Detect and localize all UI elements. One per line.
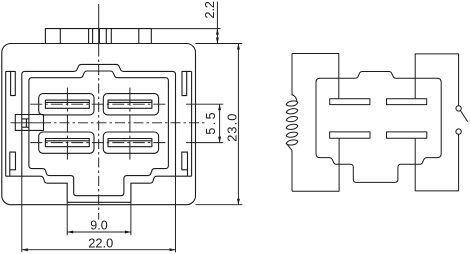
dim 22.0 extension line right [175, 176, 177, 252]
relay coil circuit: left wire lower [291, 151, 293, 192]
dim 5.5 extension line lower [186, 142, 223, 144]
tab divider 5 [105, 29, 107, 44]
schematic terminal bar upper right [387, 99, 427, 105]
coil L1 exit hook [288, 145, 293, 151]
relay coil circuit: bottom wire [292, 138, 339, 191]
tab divider 4 [98, 29, 100, 44]
vertical centreline [98, 47, 100, 220]
svg-text:5.5: 5.5 [204, 110, 218, 135]
left side rib line [5, 71, 7, 176]
arrow 23.0 up [237, 44, 240, 50]
outer shell of connector body (bottom view) [2, 44, 196, 205]
terminal blade 4 [108, 139, 152, 147]
housing inner wall with key notch [29, 71, 169, 166]
tab divider 6 [138, 29, 140, 44]
coil L1 loop 6 [286, 140, 298, 145]
dim 2.2 / 23.0 extension line body top [196, 43, 243, 45]
relay coil circuit: top wire [292, 54, 339, 99]
terminal blade 2 [108, 100, 152, 108]
terminal blade 3 [45, 139, 89, 147]
left top lock slot [6, 71, 16, 95]
relay coil circuit: left wire upper [291, 54, 293, 96]
tab divider 1 [59, 29, 61, 44]
schematic terminal bar upper left [330, 99, 370, 105]
terminal blade 1 inner line [45, 101, 89, 103]
svg-text:22.0: 22.0 [88, 236, 113, 251]
right bottom ledge [176, 175, 192, 177]
mounting tab row on top of body [45, 29, 151, 44]
dim 23.0 dimension line [237, 44, 239, 205]
housing outer wall with key notch and bottom tub [22, 64, 176, 176]
right bottom lock slot [182, 152, 188, 176]
coil L1 loop 1 [286, 101, 298, 106]
arrow 2.2 up [216, 29, 219, 35]
tab divider 6b [110, 29, 112, 44]
housing outer wall bottom left step [22, 176, 176, 202]
arrow 23.0 down [237, 199, 240, 205]
right terminal column centreline [129, 88, 131, 160]
dim 9.0 extension line right [130, 202, 132, 235]
arrow 9.0 left [67, 231, 73, 234]
side pin upper edge [22, 118, 29, 120]
dim 9.0 dimension line [67, 231, 131, 233]
coil L1 entry hook [292, 95, 297, 102]
relay contact circuit: bottom wire [415, 134, 458, 191]
arrow 2.2 down [216, 38, 219, 44]
terminal cavity 1 housing (upper left) [39, 94, 94, 115]
terminal blade 1 [45, 100, 89, 108]
lower terminal row centreline [30, 142, 167, 144]
coil L1 loop 4 [286, 124, 298, 129]
terminal blade 3 inner line [45, 140, 89, 142]
arrow 9.0 right [125, 231, 131, 234]
right side rib line [191, 71, 193, 176]
upper terminal row centreline [30, 103, 167, 105]
side pin lower edge [22, 126, 29, 128]
dim 22.0 extension line left [21, 176, 23, 252]
vertical centreline solid part [98, 4, 100, 47]
terminal cavity 3 housing (lower left) [39, 132, 94, 153]
dim 23.0 extension line body bottom [196, 204, 243, 206]
terminal cavity 2 housing (upper right) [103, 94, 158, 115]
contact fixed pole circle lower [456, 129, 461, 134]
coil L1 loop 3 [286, 117, 298, 122]
left bottom lock slot [10, 152, 16, 176]
schematic terminal bar lower right [387, 132, 427, 138]
dim 2.2 dimension line [216, 2, 218, 44]
schematic terminal bar lower left [330, 132, 370, 138]
dim 22.0 dimension line [22, 249, 176, 251]
horizontal centreline [41, 122, 207, 124]
arrow 5.5 down [218, 137, 221, 143]
arrow 22.0 right [170, 248, 176, 251]
terminal blade 2 inner line [108, 101, 152, 103]
dim 5.5 extension line upper [186, 103, 223, 105]
housing inner wall bottom with centre tub [29, 166, 169, 196]
svg-text:2.2: 2.2 [203, 1, 217, 18]
contact movable blade [460, 110, 467, 121]
horizontal centreline solid part [11, 122, 42, 124]
terminal cavity 4 housing (lower right) [103, 132, 158, 153]
schematic housing outline with notch and tub [316, 72, 441, 183]
left terminal column centreline [66, 88, 68, 160]
arrow 22.0 left [22, 248, 28, 251]
relay contact circuit: top wire [415, 54, 458, 106]
arrow 5.5 up [218, 104, 221, 110]
coil L1 loop 2 [286, 109, 298, 114]
right top lock slot [182, 71, 192, 95]
tab divider 2 [88, 29, 90, 44]
dim 9.0 extension line left [66, 202, 68, 235]
dim 2.2 extension line top [151, 28, 220, 30]
svg-text:9.0: 9.0 [90, 219, 107, 233]
contact fixed pole circle upper [456, 106, 461, 111]
side pin housing box [15, 115, 43, 131]
left bottom ledge [6, 175, 22, 177]
side pin divider [25, 119, 27, 127]
svg-text:23.0: 23.0 [224, 112, 239, 141]
terminal blade 4 inner line [108, 140, 152, 142]
tab divider 3 [92, 29, 94, 44]
dim 5.5 dimension line [219, 104, 221, 142]
coil L1 loop 5 [286, 132, 298, 137]
